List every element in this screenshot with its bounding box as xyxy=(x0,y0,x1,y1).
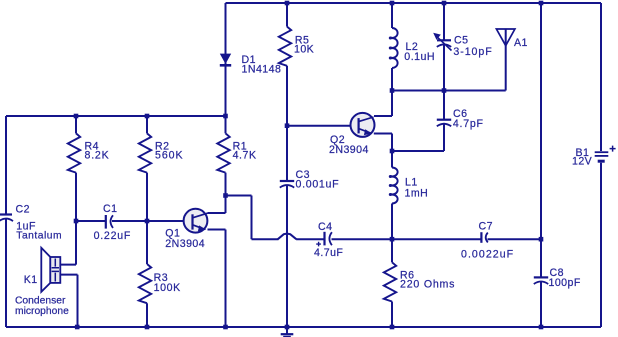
transistor Q2 xyxy=(351,113,375,137)
svg-text:C7: C7 xyxy=(479,220,493,232)
svg-text:C2: C2 xyxy=(16,204,30,216)
node top rail / C8 xyxy=(539,1,544,6)
wire C6 to emitter node xyxy=(392,150,444,152)
inductor L2 xyxy=(390,28,398,68)
wire top rail xyxy=(226,2,602,4)
diode D1 xyxy=(220,54,231,66)
resistor R3 xyxy=(139,264,151,303)
wire L2 branch xyxy=(391,3,393,91)
node ground rail / R3 xyxy=(145,325,150,330)
node R2 R3 base Q1 xyxy=(145,219,150,224)
node R5 base Q2 xyxy=(285,123,290,128)
wire hop to C4 xyxy=(296,238,324,240)
capacitor C8 xyxy=(534,277,548,284)
resistor R4 xyxy=(68,133,80,172)
wire L1 branch xyxy=(391,151,393,239)
svg-text:220 Ohms: 220 Ohms xyxy=(400,279,455,291)
svg-text:2N3904: 2N3904 xyxy=(329,144,369,156)
wire battery to bottom rail xyxy=(600,163,602,327)
capacitor C2 xyxy=(0,215,13,222)
capacitor C7 xyxy=(481,232,487,243)
svg-text:4.7K: 4.7K xyxy=(233,150,257,162)
wire mic top terminal xyxy=(60,221,76,265)
node ground rail / C8 xyxy=(539,325,544,330)
wire hop over C3 line xyxy=(278,234,297,240)
transistor Q1 xyxy=(184,209,208,233)
wire C4 node to C7 xyxy=(392,238,481,240)
node L2 collector Q2 xyxy=(390,88,395,93)
node A / R1 xyxy=(223,114,228,119)
wire Q2 base xyxy=(287,125,359,127)
svg-text:0.22uF: 0.22uF xyxy=(94,230,131,242)
node top rail / R5 xyxy=(285,1,290,6)
svg-text:560K: 560K xyxy=(155,150,184,162)
wire R5 branch xyxy=(286,3,288,126)
wire mic bottom terminal xyxy=(60,275,77,327)
resistor R1 xyxy=(217,133,229,172)
svg-text:100K: 100K xyxy=(154,282,181,294)
wire Q1 collector xyxy=(208,196,226,214)
capacitor C1 xyxy=(106,215,113,229)
svg-text:4.7uF: 4.7uF xyxy=(314,247,343,259)
capacitor C6 xyxy=(437,120,451,127)
node C4 L1 R6 C7 xyxy=(390,237,395,242)
wire C8 to ground rail xyxy=(540,281,542,327)
svg-text:0.001uF: 0.001uF xyxy=(296,179,340,191)
node emitter Q2 / L1 xyxy=(390,149,395,154)
node ground rail / C3 ground xyxy=(285,325,290,330)
svg-text:microphone: microphone xyxy=(15,306,69,317)
resistor R2 xyxy=(139,133,151,172)
wire R1 branch xyxy=(225,116,227,196)
wire left vertical upper (node A to C2) xyxy=(5,116,7,214)
resistor R6 xyxy=(384,262,396,301)
resistor R5 xyxy=(279,27,291,66)
svg-text:C1: C1 xyxy=(103,203,117,215)
wire bottom rail xyxy=(6,326,601,328)
wire R4 branch xyxy=(75,116,77,221)
svg-text:A1: A1 xyxy=(514,37,528,49)
antenna A1 xyxy=(496,29,515,46)
svg-text:3-10pF: 3-10pF xyxy=(453,46,492,58)
svg-text:4.7pF: 4.7pF xyxy=(453,118,484,130)
wire R2 branch xyxy=(146,116,148,221)
wire C3 branch xyxy=(286,126,288,327)
node C7 C8 xyxy=(539,237,544,242)
capacitor C5 (variable) xyxy=(437,37,452,51)
battery B1 xyxy=(595,146,616,162)
wire C4 to L1 node xyxy=(332,238,393,240)
node R1 collector Q1 xyxy=(223,193,228,198)
svg-text:2N3904: 2N3904 xyxy=(165,238,205,250)
wire antenna feed xyxy=(505,29,507,91)
svg-text:0.1uH: 0.1uH xyxy=(404,51,435,63)
wire R6 branch xyxy=(391,239,393,327)
wire Q2 collector xyxy=(374,91,392,117)
svg-text:10K: 10K xyxy=(294,43,314,55)
capacitor C3 xyxy=(280,181,294,188)
ground xyxy=(281,327,294,337)
svg-text:C4: C4 xyxy=(318,221,332,233)
wire C7 to C8 node xyxy=(488,238,542,240)
node top rail / L2 xyxy=(390,1,395,6)
svg-text:Tantalum: Tantalum xyxy=(16,230,62,241)
svg-text:C5: C5 xyxy=(454,34,468,46)
node A / R2 xyxy=(145,114,150,119)
node C5 C6 xyxy=(442,88,447,93)
wire C8 branch top xyxy=(540,3,542,277)
wire C5 branch xyxy=(443,3,445,91)
wire D1 branch xyxy=(225,3,227,116)
node A / R4 xyxy=(74,114,79,119)
microphone K1 xyxy=(41,248,60,292)
inductor L1 xyxy=(390,168,398,204)
wire Q1 emitter to ground xyxy=(208,230,226,328)
capacitor C4 (polarized) xyxy=(325,232,332,246)
svg-text:1N4148: 1N4148 xyxy=(242,64,282,76)
wire node A rail xyxy=(6,115,226,117)
wire collector out to C4 node xyxy=(226,196,279,240)
node ground rail / R6 xyxy=(390,325,395,330)
svg-text:100pF: 100pF xyxy=(549,277,581,289)
svg-text:1mH: 1mH xyxy=(405,188,429,200)
node ground rail / mic xyxy=(75,325,80,330)
wire R3 branch xyxy=(146,221,148,327)
wire left vertical lower (C2 to ground rail) xyxy=(5,218,7,327)
wire audio line with C1 to Q1 base xyxy=(76,220,193,222)
svg-text:12V: 12V xyxy=(572,155,593,167)
svg-text:K1: K1 xyxy=(24,274,38,286)
node mic / R4 xyxy=(74,219,79,224)
wire C6 branch xyxy=(443,91,445,152)
svg-text:8.2K: 8.2K xyxy=(85,150,110,162)
wire Q2 emitter xyxy=(374,134,392,152)
svg-text:0.0022uF: 0.0022uF xyxy=(461,249,514,261)
node top rail / C5 xyxy=(442,1,447,6)
plus sign of C4 xyxy=(316,242,321,247)
wire tank node to antenna xyxy=(392,90,506,92)
wire right vertical to battery xyxy=(600,3,602,151)
node ground rail / Q1 emitter xyxy=(223,325,228,330)
